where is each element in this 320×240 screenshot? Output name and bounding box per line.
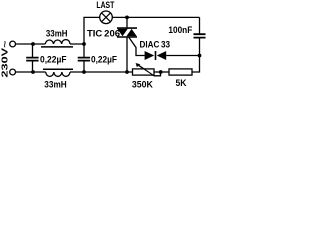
svg-text:100nF: 100nF — [168, 25, 192, 35]
node dot diac right — [198, 54, 202, 58]
triac U1 TIC206 — [117, 27, 137, 38]
wire bottom rail — [16, 71, 133, 73]
capacitor C3 100nF plates — [194, 34, 206, 37]
diac D1 DIAC33 — [145, 51, 167, 60]
inductor L1 33mH top humps — [45, 40, 70, 44]
lamp LAST — [100, 11, 113, 24]
node dot rail1-C2 — [82, 42, 86, 46]
node dot pot-5K — [159, 70, 163, 74]
svg-text:230V~: 230V~ — [1, 40, 10, 77]
svg-text:0,22µF: 0,22µF — [40, 54, 67, 64]
node dot rail2-C1 — [31, 70, 35, 74]
terminal top 230V — [10, 41, 16, 47]
inductor L2 core line — [43, 68, 73, 70]
node dot triac MT1 rail — [125, 70, 129, 74]
svg-text:33mH: 33mH — [46, 29, 68, 40]
inductor L2 33mH bottom humps — [46, 72, 70, 76]
node dot rail1-C1 — [31, 42, 35, 46]
wire diac to right edge — [166, 55, 199, 57]
inductor L1 core line — [41, 46, 73, 48]
wire riser and top wire — [84, 17, 200, 44]
wire top rail left — [16, 43, 85, 45]
wire right edge upper — [199, 17, 201, 34]
wire pot wiper connector — [137, 64, 160, 75]
svg-text:0,22µF: 0,22µF — [91, 54, 117, 64]
svg-text:33mH: 33mH — [44, 80, 67, 90]
wire pot to 5K — [154, 71, 169, 73]
resistor R1 5K — [169, 69, 192, 75]
svg-text:TIC 206: TIC 206 — [87, 28, 120, 39]
node dot triac top — [125, 16, 129, 20]
capacitor C2 0,22uF stubs — [83, 44, 85, 72]
potentiometer P1 350K — [133, 63, 155, 76]
wire triac MT2 lead — [126, 17, 128, 28]
wire right edge lower — [192, 38, 200, 72]
svg-text:5K: 5K — [176, 78, 187, 89]
capacitor C1 plates — [26, 58, 38, 61]
capacitor C2 plates — [78, 58, 90, 61]
wire triac MT1 lead — [126, 37, 128, 72]
svg-text:350K: 350K — [132, 79, 153, 89]
wire gate to diac — [129, 37, 145, 55]
node dot rail2-C2 — [82, 70, 86, 74]
svg-text:LAST: LAST — [96, 0, 114, 11]
svg-text:DIAC 33: DIAC 33 — [140, 39, 171, 49]
terminal bottom 230V — [10, 69, 16, 75]
capacitor C1 0,22uF stubs — [32, 44, 34, 72]
